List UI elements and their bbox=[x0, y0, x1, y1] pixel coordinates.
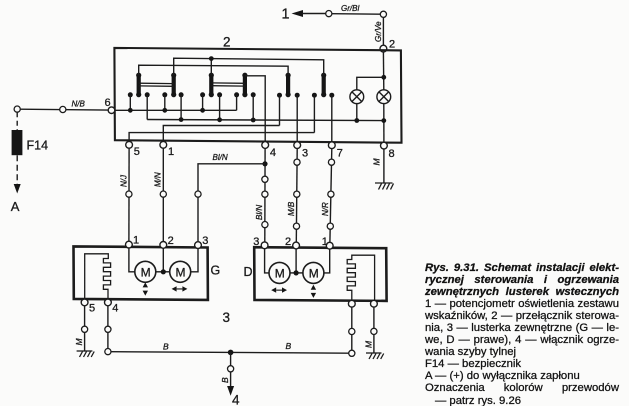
svg-text:A: A bbox=[11, 199, 20, 214]
node rail dot P8 bbox=[251, 118, 256, 123]
svg-text:G: G bbox=[211, 264, 221, 278]
terminal G5 bbox=[81, 299, 88, 306]
node lamp left foot bbox=[354, 118, 359, 123]
wire B bus to connector bbox=[230, 352, 232, 365]
svg-text:1: 1 bbox=[322, 236, 328, 248]
svg-text:B: B bbox=[220, 377, 230, 383]
arrow vertical under motor D right bbox=[311, 285, 316, 298]
node connector Bl/N b bbox=[262, 191, 268, 197]
node connector on branch bbox=[195, 191, 201, 197]
node connector G4 bbox=[105, 326, 111, 332]
arrow to 1 bbox=[292, 10, 304, 17]
bridge rocker 1 bbox=[139, 83, 174, 86]
node connector Gr/Bl bbox=[326, 11, 332, 17]
wire G5 to ground bbox=[84, 306, 86, 351]
contact bar B6 bbox=[321, 73, 326, 98]
wire terminal 1 to pin P9 bbox=[163, 126, 279, 142]
wire D2 to junction bbox=[295, 249, 297, 273]
svg-text:4: 4 bbox=[232, 393, 240, 406]
wire terminal 5 to pin P11 bbox=[129, 133, 314, 142]
wire top horizontal bbox=[332, 13, 381, 16]
ground at D bbox=[366, 353, 384, 359]
node rail dot P3 bbox=[162, 108, 167, 113]
svg-text:1: 1 bbox=[133, 235, 139, 247]
terminal 6 bbox=[108, 107, 115, 114]
heater element D bbox=[347, 255, 374, 300]
svg-text:M/N: M/N bbox=[154, 172, 163, 187]
svg-text:1: 1 bbox=[168, 146, 174, 158]
node corner connector bbox=[380, 11, 386, 17]
wire B4 to terminal 4 bbox=[245, 76, 265, 142]
node lamp right foot bbox=[381, 118, 386, 123]
svg-text:4: 4 bbox=[270, 147, 276, 159]
pin P7 bbox=[234, 92, 239, 110]
svg-text:3: 3 bbox=[302, 147, 308, 159]
svg-text:M: M bbox=[363, 340, 373, 348]
svg-text:1: 1 bbox=[282, 7, 290, 23]
node motor junction G bbox=[161, 269, 166, 274]
terminal G2 bbox=[160, 242, 167, 249]
pin P4 bbox=[179, 92, 184, 119]
svg-text:3: 3 bbox=[223, 310, 231, 325]
svg-text:B: B bbox=[163, 342, 169, 352]
svg-text:4: 4 bbox=[112, 303, 118, 315]
pin P11 bbox=[312, 93, 317, 133]
node rail dot P6 bbox=[217, 117, 222, 122]
wire D3 to motor bbox=[265, 249, 269, 273]
svg-text:Gr/Ve: Gr/Ve bbox=[374, 21, 383, 42]
svg-text:8: 8 bbox=[389, 148, 395, 160]
arrow to A bbox=[14, 184, 21, 194]
node connector M/B b bbox=[294, 191, 300, 197]
wire G2 to junction bbox=[162, 248, 164, 271]
wire feed rail from terminal 6 bbox=[115, 109, 237, 111]
switch box 2 outline bbox=[114, 48, 401, 143]
wire arrow shaft bbox=[302, 13, 326, 15]
contact bar B2 bbox=[171, 73, 176, 98]
svg-text:M: M bbox=[371, 158, 381, 166]
contact bar B4 bbox=[242, 73, 247, 98]
wire terminal 8 to ground bbox=[383, 149, 385, 183]
ground at terminal 8 bbox=[375, 183, 394, 190]
node B bus junction bbox=[228, 350, 234, 356]
svg-text:2: 2 bbox=[168, 235, 174, 247]
node connector D right bbox=[371, 328, 377, 334]
arrow vertical under motor G left bbox=[143, 282, 148, 295]
terminal D bottom left bbox=[348, 300, 355, 307]
motor D left bbox=[269, 262, 290, 283]
wire dashed below fuse bbox=[16, 155, 18, 184]
terminal 8 bbox=[381, 142, 388, 149]
svg-text:N/R: N/R bbox=[321, 202, 330, 216]
wire dashed to fuse bbox=[16, 112, 18, 130]
terminal G3 bbox=[195, 242, 202, 249]
terminal D1 bbox=[326, 242, 333, 249]
wire Gr/Ve vertical bbox=[382, 17, 384, 45]
node connector M/N bbox=[160, 191, 166, 197]
pin P6 bbox=[217, 92, 222, 119]
node B bus right connector bbox=[349, 350, 355, 356]
mirror G box bbox=[74, 246, 208, 300]
arrow B down bbox=[227, 386, 234, 396]
bridge rocker 2 bbox=[211, 83, 245, 86]
svg-text:5: 5 bbox=[89, 303, 95, 315]
svg-text:M: M bbox=[275, 266, 285, 280]
pin P1 bbox=[128, 92, 133, 110]
svg-text:2: 2 bbox=[389, 39, 395, 51]
svg-text:M: M bbox=[74, 338, 84, 346]
arrow horizontal under motor G right bbox=[172, 286, 188, 291]
fuse F14 bbox=[12, 130, 23, 155]
wire G3 to motor bbox=[191, 249, 198, 272]
pin P3 bbox=[162, 92, 167, 110]
wire B bus bbox=[111, 352, 349, 354]
wire G4 to B bus bbox=[107, 306, 109, 349]
svg-text:Gr/Bl: Gr/Bl bbox=[341, 4, 359, 13]
terminal 5 bbox=[126, 141, 133, 148]
svg-text:B: B bbox=[286, 341, 292, 351]
node rail dot P4 bbox=[179, 117, 184, 122]
terminal G4 bbox=[105, 299, 112, 306]
mirror D box bbox=[254, 247, 386, 301]
wire D1 to motor bbox=[324, 249, 330, 273]
svg-text:M: M bbox=[141, 265, 151, 279]
lamp right bbox=[377, 90, 391, 104]
node connector at A feed bbox=[14, 106, 20, 112]
motor D right bbox=[303, 262, 324, 283]
terminal 2 of switch bbox=[380, 45, 387, 52]
wire terminal 2 to lamp right bbox=[382, 52, 384, 90]
svg-text:3: 3 bbox=[202, 235, 208, 247]
wire riser B3 bbox=[210, 59, 212, 75]
svg-text:6: 6 bbox=[105, 97, 111, 109]
pin P10 to terminal 3 bbox=[295, 93, 300, 142]
terminal D bottom right bbox=[371, 300, 378, 307]
node connector G5 bbox=[82, 326, 88, 332]
wire D bottom left to B bus bbox=[351, 307, 353, 350]
heater element G bbox=[85, 254, 111, 300]
wire M/B terminal 3 to mirror D bbox=[295, 149, 298, 243]
wire W2 lower link bbox=[139, 65, 288, 75]
svg-text:N/J: N/J bbox=[119, 174, 128, 187]
pin P8 bbox=[251, 92, 256, 119]
svg-text:D: D bbox=[244, 265, 253, 279]
wire lamp right foot to terminal 8 bbox=[383, 104, 385, 143]
node connector N/J bbox=[126, 191, 132, 197]
svg-text:F14: F14 bbox=[27, 139, 49, 153]
wire motor link G bbox=[156, 271, 170, 273]
arrow horizontal under motor D left bbox=[271, 287, 287, 292]
svg-text:7: 7 bbox=[337, 148, 343, 160]
contact bar B1 bbox=[136, 73, 141, 98]
wire B arrow shaft bbox=[230, 372, 232, 386]
svg-text:3: 3 bbox=[253, 236, 259, 248]
node connector N/R c bbox=[327, 223, 333, 229]
motor G left bbox=[135, 261, 156, 282]
svg-text:N/B: N/B bbox=[72, 100, 86, 109]
node connector B drop bbox=[228, 366, 234, 372]
node connector Bl/N c bbox=[262, 222, 268, 228]
svg-text:5: 5 bbox=[134, 146, 140, 158]
svg-text:M: M bbox=[309, 266, 319, 280]
contact bar B3 bbox=[209, 73, 214, 98]
svg-text:2: 2 bbox=[223, 35, 231, 50]
wire battery feed horizontal bbox=[20, 108, 108, 111]
svg-text:Bl/N: Bl/N bbox=[255, 205, 264, 220]
node connector D left bbox=[349, 328, 355, 334]
terminal D3 bbox=[261, 242, 268, 249]
wire G1 to motor bbox=[129, 248, 135, 272]
ground at G5 bbox=[77, 351, 95, 357]
pin P5 bbox=[200, 92, 205, 110]
lamp left bbox=[350, 90, 364, 104]
node connector M/B c bbox=[293, 223, 299, 229]
node Bl/N branch junction bbox=[262, 161, 267, 166]
svg-text:2: 2 bbox=[285, 236, 291, 248]
node connector Bl/N a bbox=[262, 176, 268, 182]
wire M/N terminal 1 to mirror G bbox=[162, 148, 164, 241]
terminal G1 bbox=[125, 241, 132, 248]
terminal 3 bbox=[294, 142, 301, 149]
wire Bl/N terminal 4 down bbox=[264, 148, 266, 242]
wire N/R terminal 7 to mirror D bbox=[330, 149, 332, 243]
wire lamp top link bbox=[357, 77, 384, 90]
node rail dot P5 bbox=[200, 108, 205, 113]
node junction W1 bbox=[209, 56, 214, 61]
node motor junction D bbox=[294, 270, 299, 275]
node B bus left connector bbox=[105, 349, 111, 355]
terminal D2 bbox=[293, 242, 300, 249]
node inline connector N/B bbox=[60, 106, 66, 112]
wire lamp left foot bbox=[356, 104, 358, 121]
wire lamp return rail bbox=[147, 120, 384, 121]
node connector N/R a bbox=[328, 159, 334, 165]
pin P2 bbox=[145, 92, 150, 119]
node lamp top junction bbox=[381, 75, 386, 80]
contact bar B5 bbox=[286, 73, 291, 98]
node connector M/B a bbox=[294, 159, 300, 165]
svg-text:M: M bbox=[176, 265, 186, 279]
node connector N/R b bbox=[328, 191, 334, 197]
wire motor link D bbox=[290, 272, 303, 274]
pin P12 to terminal 7 bbox=[329, 93, 334, 142]
terminal 1 bbox=[160, 141, 167, 148]
node rail dot P1 bbox=[128, 108, 133, 113]
terminal 7 bbox=[328, 142, 335, 149]
wire D bottom right to ground bbox=[373, 307, 375, 353]
pin P9 bbox=[277, 93, 282, 126]
wire W1 upper link bbox=[174, 58, 324, 75]
svg-text:M/B: M/B bbox=[287, 201, 296, 216]
svg-text:Bl/N: Bl/N bbox=[213, 153, 228, 162]
wire N/J terminal 5 to mirror G bbox=[128, 148, 130, 241]
terminal 4 bbox=[262, 142, 269, 149]
motor G right bbox=[170, 261, 191, 282]
wire Bl/N branch to mirror G bbox=[198, 164, 265, 242]
